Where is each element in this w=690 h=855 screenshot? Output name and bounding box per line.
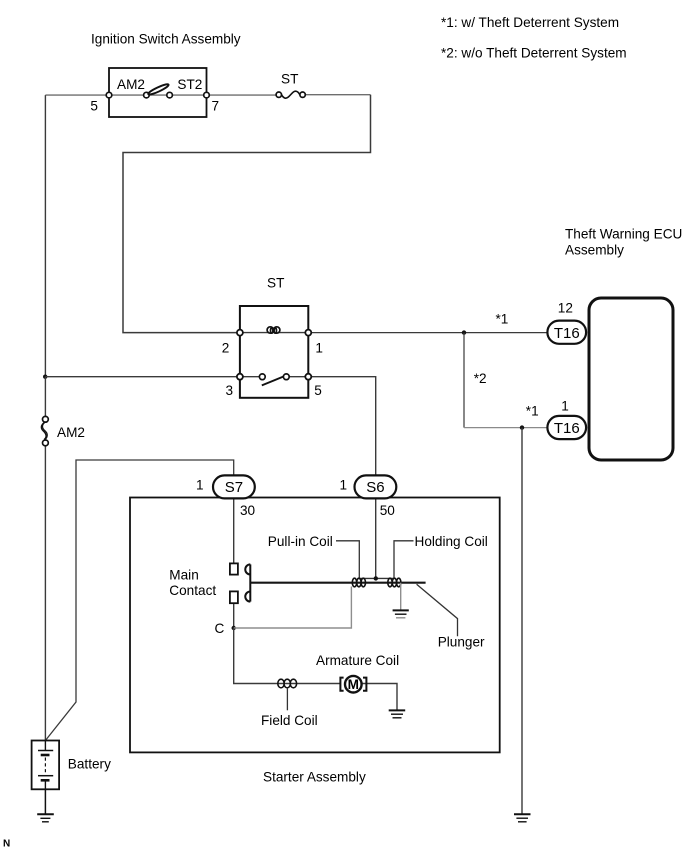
- wire inside ignition box: [112, 94, 144, 96]
- relay pin 2: [237, 330, 243, 336]
- svg-text:7: 7: [212, 99, 220, 114]
- wire junction down to ground: [521, 428, 523, 814]
- wire battery vertical bus x=45: [44, 95, 46, 377]
- relay contact right: [283, 374, 289, 380]
- node junction *1/*2: [462, 330, 466, 334]
- wire relay switch row: [243, 376, 259, 378]
- svg-text:C: C: [215, 621, 225, 636]
- connector S7: [213, 475, 255, 498]
- node junction at (45,377): [43, 375, 47, 379]
- relay pin 1: [305, 330, 311, 336]
- wire main contact to node C: [233, 603, 235, 628]
- svg-text:50: 50: [380, 503, 396, 518]
- svg-text:Ignition Switch Assembly: Ignition Switch Assembly: [91, 32, 241, 47]
- svg-text:5: 5: [90, 99, 98, 114]
- ignition pin 7: [204, 92, 210, 98]
- svg-text:5: 5: [314, 383, 322, 398]
- svg-text:Holding Coil: Holding Coil: [415, 534, 488, 549]
- relay contact left: [259, 374, 265, 380]
- wire node C to field coil: [234, 628, 341, 684]
- svg-text:Starter Assembly: Starter Assembly: [263, 769, 366, 784]
- node junction at (522,428): [520, 425, 524, 429]
- relay ST box: [240, 306, 308, 398]
- plunger bar: [250, 582, 425, 584]
- ignition contact AM2: [144, 92, 150, 98]
- svg-text:Armature Coil: Armature Coil: [316, 653, 399, 668]
- main contact movable bar: [249, 564, 251, 601]
- main contact fixed square top: [230, 563, 238, 574]
- ignition switch box: [109, 68, 207, 117]
- wire down from corner: [123, 95, 371, 333]
- relay pin 5: [305, 374, 311, 380]
- wire relay pin3 to battery bus: [45, 376, 237, 378]
- wire node C to pull-in coil: [234, 587, 352, 629]
- wire ignition pin7 to fuse ST: [207, 94, 277, 96]
- wire fuse AM2 to battery: [44, 446, 46, 741]
- wire fuse ST to corner: [305, 94, 370, 96]
- svg-text:Plunger: Plunger: [438, 634, 485, 649]
- node C: [232, 626, 236, 630]
- ground bottom right: [514, 814, 531, 822]
- wire junction to fuse AM2: [44, 377, 46, 417]
- svg-text:Pull-in Coil: Pull-in Coil: [268, 534, 333, 549]
- svg-text:30: 30: [240, 503, 256, 518]
- svg-text:ST: ST: [281, 72, 298, 87]
- svg-text:N: N: [3, 839, 10, 850]
- connector T16 pin12: [547, 321, 586, 344]
- leader line holding coil: [394, 541, 414, 578]
- ignition contact ST2: [167, 92, 173, 98]
- wire holding coil to ground: [400, 583, 402, 610]
- svg-text:M: M: [348, 677, 359, 692]
- svg-text:2: 2: [222, 340, 230, 355]
- svg-text:ST: ST: [267, 276, 284, 291]
- svg-text:1: 1: [340, 478, 348, 493]
- node junction S6/coils: [374, 576, 378, 580]
- svg-text:T16: T16: [554, 325, 580, 342]
- svg-text:Contact: Contact: [169, 583, 216, 598]
- ground motor: [389, 710, 406, 717]
- wire battery to S7: [45, 460, 233, 741]
- coil top link: [358, 577, 395, 579]
- main contact arc top: [245, 564, 250, 574]
- wire relay coil row: [243, 332, 305, 334]
- wire S7 to main contact: [233, 498, 235, 563]
- svg-text:*2: w/o Theft Deterrent System: *2: w/o Theft Deterrent System: [441, 45, 627, 60]
- svg-text:3: 3: [226, 383, 234, 398]
- wire motor to ground: [362, 684, 397, 711]
- svg-text:1: 1: [315, 340, 323, 355]
- fuse ST: [276, 91, 305, 98]
- svg-text:*1: w/ Theft Deterrent System: *1: w/ Theft Deterrent System: [441, 15, 619, 30]
- svg-text:*2: *2: [474, 371, 487, 386]
- svg-text:1: 1: [561, 399, 569, 414]
- main contact arc bottom: [245, 592, 250, 602]
- svg-text:AM2: AM2: [117, 77, 145, 92]
- wire S6 to coil junction: [375, 498, 377, 578]
- relay coil: [267, 327, 280, 333]
- relay pin 3: [237, 374, 243, 380]
- svg-text:AM2: AM2: [57, 425, 85, 440]
- holding coil L2: [388, 578, 401, 587]
- wire *2 branch vertical: [463, 333, 465, 428]
- connector T16 pin1: [547, 416, 586, 439]
- svg-text:Theft Warning ECU: Theft Warning ECU: [565, 227, 682, 242]
- svg-text:Assembly: Assembly: [565, 243, 624, 258]
- svg-text:ST2: ST2: [177, 77, 202, 92]
- field coil L3: [278, 679, 297, 688]
- ground battery: [37, 814, 54, 822]
- ECU box U1: [589, 298, 673, 460]
- battery symbol: [32, 741, 59, 790]
- svg-text:Battery: Battery: [68, 756, 111, 771]
- svg-text:S7: S7: [225, 479, 243, 496]
- wire relay pin5 to S6: [311, 377, 375, 476]
- plunger pointer: [417, 584, 458, 636]
- connector S6: [355, 475, 397, 498]
- ignition pin 5: [106, 92, 112, 98]
- svg-text:T16: T16: [554, 420, 580, 437]
- main contact fixed square bottom: [230, 591, 238, 603]
- ignition switch lever: [147, 83, 169, 96]
- wire battery feed to ignition pin 5: [45, 94, 109, 96]
- svg-text:12: 12: [558, 300, 573, 315]
- ground holding coil: [393, 610, 409, 617]
- relay switch lever: [262, 376, 284, 385]
- leader line pull-in coil: [336, 541, 359, 578]
- wire battery to ground: [44, 789, 46, 814]
- svg-text:Field Coil: Field Coil: [261, 713, 318, 728]
- motor M armature: [340, 676, 366, 693]
- svg-text:1: 1: [196, 478, 204, 493]
- svg-text:S6: S6: [366, 479, 384, 496]
- svg-text:*1: *1: [496, 311, 509, 326]
- svg-text:Main: Main: [169, 568, 198, 583]
- leader line field coil: [286, 688, 288, 711]
- starter assembly box: [130, 498, 500, 753]
- svg-text:*1: *1: [526, 404, 539, 419]
- pull-in coil L1: [352, 578, 365, 587]
- wire to T16 pin1: [464, 427, 548, 429]
- fuse AM2: [41, 416, 48, 445]
- wire relay pin1 to T16 pin12: [311, 332, 547, 334]
